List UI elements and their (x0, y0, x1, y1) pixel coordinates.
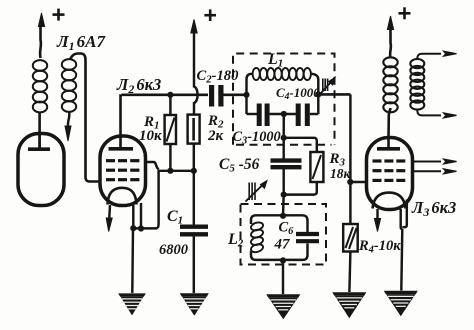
wire cathode node to screen line riser (133, 171, 158, 228)
tube V3 (Л3) envelope (367, 138, 413, 210)
svg-text:Л16А7: Л16А7 (56, 32, 107, 53)
resistor R1 slash (167, 118, 175, 142)
svg-text:C1: C1 (167, 208, 183, 227)
tube V2 cathode arch (108, 188, 137, 205)
supply arrow +A (left) (38, 13, 44, 58)
supply arrow +B (middle) with hop over bus (191, 20, 198, 115)
node C5 bottom / R3 return (281, 192, 287, 198)
output arrow secondary top (417, 51, 456, 59)
wire V2 side lead to screen line (145, 162, 159, 170)
capacitor C4 plates (trimmer) (296, 104, 310, 127)
tube V2 (Л2) envelope (100, 136, 146, 206)
inductor L1 coil (253, 68, 311, 80)
svg-text:C4-1000: C4-1000 (276, 85, 320, 102)
capacitor C5 plates (271, 158, 302, 162)
dashed box tank T2 (241, 204, 327, 265)
tube V2 anode lead to bus (121, 96, 123, 149)
inductor output transformer primary (383, 57, 397, 112)
wire R3 bottom lead (284, 182, 317, 195)
capacitor C1 lead bottom to ground (193, 237, 195, 294)
wire to R3 top (284, 138, 317, 152)
tank T1 loop left side (247, 74, 253, 114)
tube V2 grid dashes row3 (106, 178, 139, 181)
tube V3 cathode arrow (374, 209, 380, 232)
capacitor C5 lead top (282, 138, 284, 160)
dashed box filter unit (233, 54, 335, 145)
node bus / R1 junction (167, 92, 173, 98)
tube V3 cathode leg lead (401, 209, 403, 229)
trimmer arrow for C4 (319, 77, 336, 96)
svg-text:6800: 6800 (159, 242, 188, 258)
wire screen line (158, 170, 195, 172)
wire right column (tank output down to R4) (349, 94, 351, 224)
ground G4 (332, 292, 366, 318)
wire V3 cathode to ground (401, 229, 402, 291)
svg-text:10к: 10к (139, 128, 162, 144)
ground G2 (180, 293, 209, 316)
resistor R4 10k body (343, 224, 358, 252)
tube V3 grid dashes row1 (373, 159, 406, 162)
wire tank T1 output to right column (318, 93, 350, 96)
node C5 top / R3 branch (281, 135, 287, 141)
output arrow V3 screen row2 (413, 169, 457, 174)
inductor L2 coil (250, 221, 264, 253)
svg-text:18к: 18к (330, 166, 352, 181)
output arrow V3 screen row1 (413, 159, 457, 164)
ground G3 (266, 294, 300, 319)
tank T1 loop right side (311, 74, 318, 114)
wire tank T2 to ground (282, 260, 284, 294)
wire coil W1 bottom to tube V1 anode (38, 113, 41, 148)
tube V3 cathode arch (373, 193, 406, 209)
inductor output transformer secondary (410, 59, 424, 110)
ground G1 (118, 293, 146, 315)
wire C2 to tank T1 (224, 94, 247, 97)
node tank T1 input (243, 92, 249, 98)
resistor R1 10k (variable) body (165, 115, 176, 144)
inductor input coil W2 (62, 59, 76, 112)
svg-text:C3-1000: C3-1000 (233, 129, 281, 147)
tube V3 grid dashes row2 (373, 169, 406, 172)
svg-text:Л26к3: Л26к3 (116, 75, 161, 96)
resistor R2 inner line (192, 118, 195, 141)
tank T1 bottom path left segment (247, 113, 258, 115)
resistor R4 slashes (346, 227, 354, 248)
tube V2 envelope bottom lead (140, 203, 142, 229)
wire C4/C3 node down to C5 node (282, 114, 285, 138)
capacitor C2 plates (209, 85, 224, 107)
wire R2 bottom lead (193, 144, 195, 171)
capacitor C1 lead top (193, 171, 195, 225)
supply arrow +C (right) (387, 16, 393, 58)
node grid V3 (347, 179, 353, 185)
svg-text:R4-10к: R4-10к (358, 238, 401, 256)
capacitor C1 plates (180, 224, 208, 228)
wire between C3 and C4 (270, 113, 296, 115)
node screen/R1 (167, 168, 173, 174)
node cathode V2 junction dots (130, 225, 136, 231)
wire R1 bottom lead (169, 144, 171, 171)
inductor input coil W1 (33, 60, 47, 112)
wire R4 bottom to ground (349, 252, 350, 293)
plus sign (left supply) (53, 9, 65, 21)
svg-text:C6: C6 (279, 220, 295, 238)
tube V2 grid dashes row1 (106, 159, 139, 162)
tube V3 anode lead (387, 138, 390, 149)
tube V1 anode bar (28, 147, 50, 151)
capacitor C6 plates (296, 232, 319, 236)
tube V3 grid dashes row3 (373, 179, 406, 182)
tube V1 (Л1) envelope (18, 134, 64, 206)
tank T1 bottom path right segment (310, 113, 319, 115)
tube V1 anode lead (38, 133, 41, 149)
node screen/R2/C1 (191, 168, 197, 174)
wire anode bus V2 (122, 94, 209, 97)
tube V3 envelope bottom lead (402, 200, 407, 228)
node tank T1 output (315, 91, 321, 97)
svg-text:2к: 2к (207, 128, 224, 144)
svg-text:C5 -56: C5 -56 (219, 156, 260, 175)
arrow on coil W2 bottom (to grid of V1) (65, 112, 71, 142)
wire V3 anode to output transformer primary (389, 108, 391, 138)
tube V2 grid dashes row2 (106, 169, 139, 172)
node tank T2 bottom (280, 257, 286, 263)
wire coil W2 top to grid line of V2 (70, 54, 100, 182)
output arrow secondary bottom (417, 110, 456, 118)
svg-text:47: 47 (274, 237, 291, 253)
tube V2 cathode leg lead (132, 205, 134, 228)
capacitor C5 lead bottom (282, 169, 284, 195)
ground G5 (384, 291, 418, 317)
wire C5 node to tank T2 (282, 195, 285, 216)
tube V2 cathode arrow (AGC lead) (106, 205, 112, 232)
capacitor C3 plates (257, 104, 270, 127)
wire R1 top lead (169, 95, 171, 115)
tube V2 anode bar (109, 147, 134, 151)
resistor R3 18k body (310, 152, 323, 182)
wire to V3 grid (350, 181, 368, 183)
node between C3 and C4 (281, 111, 287, 117)
plus sign (middle supply) (204, 9, 216, 21)
plus sign (right supply) (399, 7, 411, 19)
tank T2 loop (251, 215, 308, 260)
trimmer arrow for L2 (246, 181, 268, 202)
tube V3 anode bar (377, 147, 400, 151)
node tank T2 top (280, 213, 286, 219)
wire ground lead from cathode node (131, 228, 134, 293)
svg-text:Л36к3: Л36к3 (411, 198, 456, 219)
resistor R3 slash (313, 155, 322, 179)
resistor R2 2k body (188, 115, 200, 144)
